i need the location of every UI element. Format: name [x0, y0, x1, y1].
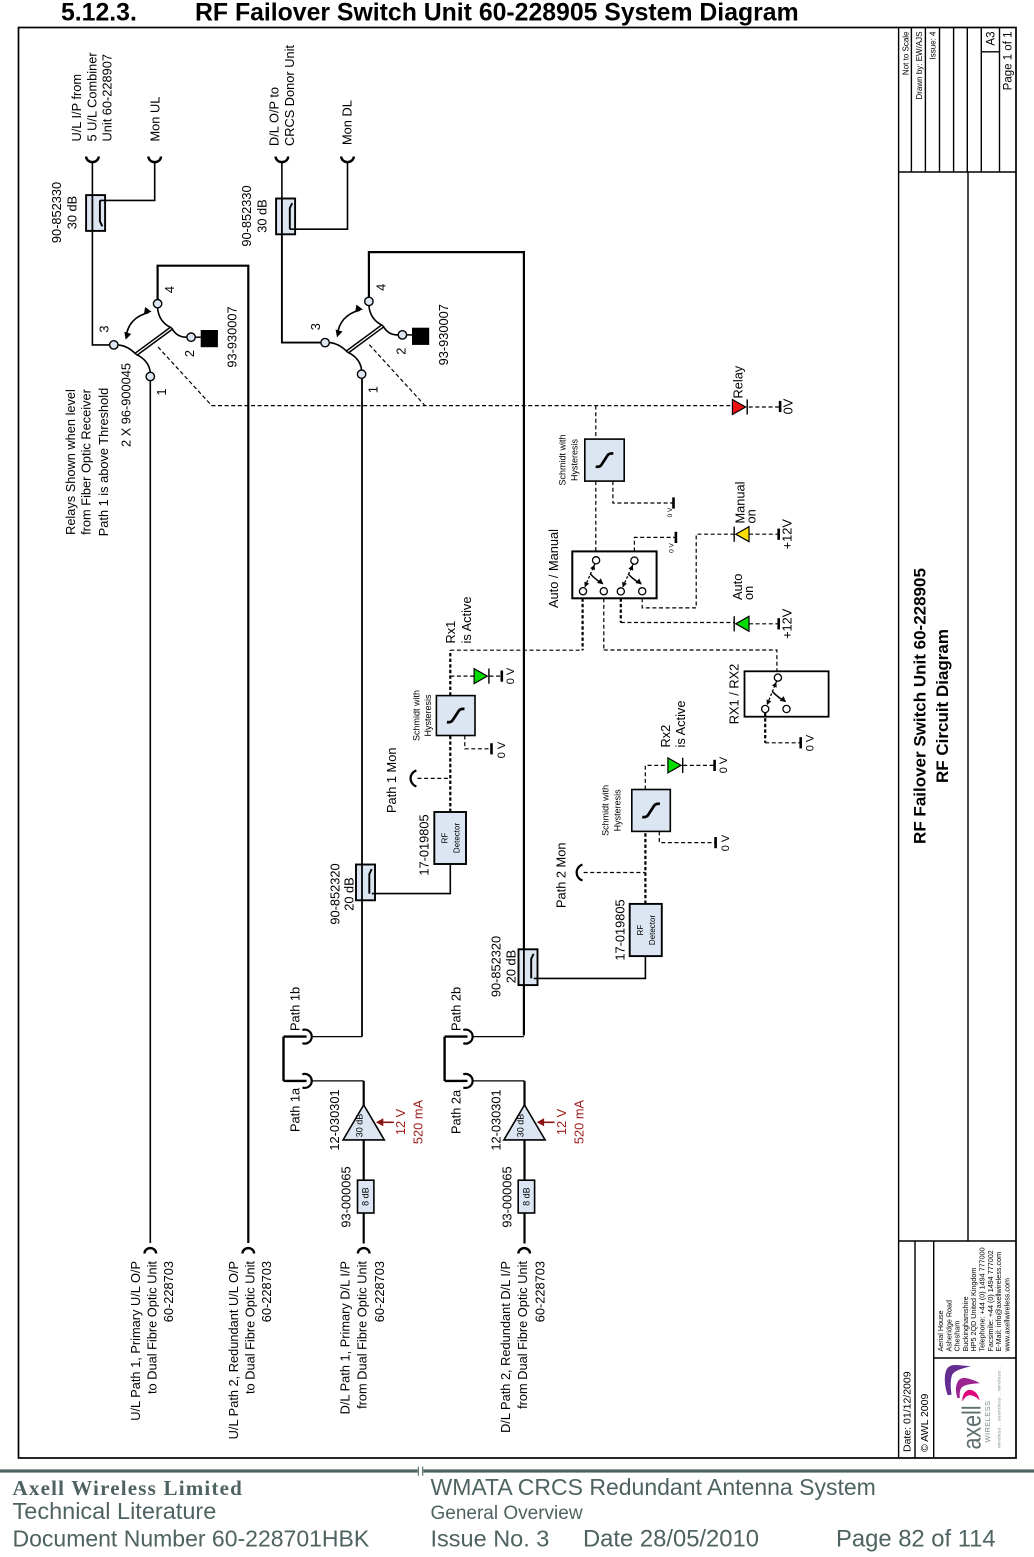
- svg-text:Auto / Manual: Auto / Manual: [546, 529, 561, 608]
- amplifier A1 12-030301: [343, 1105, 384, 1140]
- title block grid: [898, 28, 900, 1459]
- schmidt trigger U2: [585, 439, 624, 481]
- svg-text:on: on: [741, 586, 756, 600]
- svg-text:Drawn by: EW/AJS: Drawn by: EW/AJS: [915, 32, 924, 100]
- RF detector U4 17-019805: [630, 904, 662, 956]
- wire S2 port1 to D/L path1: [361, 379, 363, 1037]
- wire S1 port1 to U/L path1: [149, 381, 151, 1243]
- svg-text:520 mA: 520 mA: [571, 1099, 586, 1144]
- wire to schmidt U2 (dashed): [595, 406, 597, 440]
- svg-text:CRCS Donor Unit: CRCS Donor Unit: [282, 45, 297, 146]
- svg-text:from Dual Fibre Optic Unit: from Dual Fibre Optic Unit: [515, 1261, 530, 1409]
- coupler 90-852320 20 dB (path1): [356, 865, 375, 901]
- svg-text:D/L Path 2, Redundant D/L I/P: D/L Path 2, Redundant D/L I/P: [498, 1261, 513, 1433]
- svg-text:is Active: is Active: [673, 701, 688, 748]
- svg-text:Hysteresis: Hysteresis: [570, 439, 580, 482]
- node D/L path1 input connector: [358, 1248, 370, 1253]
- wire Rx1-is-active net (dashed): [581, 598, 583, 650]
- wire: [683, 764, 714, 766]
- svg-text:Date: 01/12/2009: Date: 01/12/2009: [901, 1371, 913, 1452]
- svg-text:17-019805: 17-019805: [416, 814, 431, 875]
- svg-text:20 dB: 20 dB: [342, 877, 357, 910]
- wire jog: [443, 1037, 445, 1081]
- wire: [363, 1081, 365, 1105]
- svg-text:WIRELESS: WIRELESS: [983, 1401, 992, 1443]
- svg-text:Path 2b: Path 2b: [449, 987, 464, 1031]
- svg-text:Not to Scale: Not to Scale: [901, 31, 910, 75]
- svg-text:90-852330: 90-852330: [239, 185, 254, 246]
- svg-text:90-852330: 90-852330: [49, 182, 64, 243]
- load termination (S1 port 2): [195, 336, 200, 338]
- node U/L I/P connector: [86, 157, 99, 163]
- wire A-right to RX1/RX2 (dashed): [603, 598, 605, 650]
- svg-text:3: 3: [97, 325, 112, 332]
- svg-text:3: 3: [308, 323, 323, 330]
- svg-text:Detector: Detector: [453, 823, 462, 854]
- svg-text:A3: A3: [985, 32, 997, 46]
- ground 0V (U2): [613, 481, 673, 503]
- wire: [523, 1081, 525, 1105]
- wire: [523, 1213, 525, 1244]
- wire: [281, 162, 283, 199]
- svg-text:Relay: Relay: [731, 365, 746, 398]
- svg-text:Issue No. 3: Issue No. 3: [431, 1526, 550, 1552]
- svg-text:Rx1: Rx1: [443, 621, 458, 644]
- wire (dashed): [584, 872, 646, 874]
- wire tap to Mon DL: [290, 162, 348, 229]
- svg-text:to Dual Fibre Optic Unit: to Dual Fibre Optic Unit: [242, 1261, 257, 1394]
- LED auto on (green): [736, 616, 749, 631]
- svg-text:Path 1b: Path 1b: [288, 987, 303, 1031]
- node D/L O/P connector: [276, 157, 289, 163]
- node Path 2 Mon connector: [577, 865, 583, 881]
- svg-text:www.axellwireless.com: www.axellwireless.com: [1002, 1278, 1011, 1353]
- svg-text:D/L Path 1, Primary D/L I/P: D/L Path 1, Primary D/L I/P: [338, 1261, 353, 1414]
- svg-text:12 V: 12 V: [393, 1108, 408, 1135]
- RF detector U3 17-019805: [434, 812, 466, 864]
- ground 0V (SW-B common): [675, 532, 678, 543]
- svg-text:from Fiber Optic Receiver: from Fiber Optic Receiver: [78, 388, 93, 535]
- svg-text:0 V: 0 V: [496, 741, 508, 758]
- schmidt trigger U5: [632, 790, 671, 832]
- schmidt trigger U1: [436, 696, 475, 736]
- supply arrow A2: [542, 1121, 555, 1123]
- svg-text:wireless .. seamless .. wire: wireless .. seamless .. wireless ..: [997, 1366, 1002, 1448]
- svg-text:4: 4: [162, 286, 177, 293]
- load termination (S2 port 2): [407, 334, 412, 336]
- wire: [749, 623, 778, 625]
- svg-text:60-228703: 60-228703: [259, 1261, 274, 1322]
- terminal +12V (manual): [777, 529, 780, 540]
- svg-text:Page 1 of 1: Page 1 of 1: [1003, 32, 1015, 91]
- svg-text:93-000065: 93-000065: [339, 1166, 354, 1227]
- svg-text:4: 4: [374, 284, 389, 291]
- svg-text:Detector: Detector: [648, 915, 657, 946]
- svg-text:© AWL 2009: © AWL 2009: [919, 1394, 931, 1452]
- LED relay: [732, 400, 745, 415]
- svg-text:Document Number 60-228701HBK: Document Number 60-228701HBK: [13, 1526, 370, 1552]
- svg-text:12-030301: 12-030301: [488, 1089, 503, 1150]
- wire (dashed): [418, 777, 451, 779]
- svg-text:RF Failover Switch Unit 60-228: RF Failover Switch Unit 60-228905: [911, 568, 930, 844]
- svg-text:+12V: +12V: [780, 608, 795, 639]
- wire: [363, 1140, 365, 1180]
- svg-text:1: 1: [365, 386, 380, 393]
- wire SW-B common to ground (dashed): [634, 537, 675, 551]
- svg-text:30 dB: 30 dB: [515, 1114, 525, 1138]
- svg-text:0 V: 0 V: [505, 667, 517, 684]
- switch pole B: [622, 564, 633, 588]
- svg-text:on: on: [744, 509, 759, 523]
- svg-text:RF Circuit Diagram: RF Circuit Diagram: [933, 629, 952, 783]
- svg-text:90-852320: 90-852320: [489, 936, 504, 997]
- ground 0V (U5): [659, 831, 715, 842]
- wire jog: [282, 1037, 284, 1081]
- ground 0V (RX): [799, 737, 802, 748]
- svg-text:17-019805: 17-019805: [612, 899, 627, 960]
- svg-text:Issue: 4: Issue: 4: [929, 31, 938, 60]
- wire S2 control (dashed): [369, 345, 425, 406]
- ground 0V (U1): [465, 736, 491, 749]
- svg-text:Date 28/05/2010: Date 28/05/2010: [583, 1526, 759, 1553]
- switch SW auto/manual: [572, 551, 656, 598]
- ground 0V (Rx2 LED): [713, 760, 716, 771]
- svg-text:from Dual Fibre Optic Unit: from Dual Fibre Optic Unit: [354, 1261, 369, 1409]
- svg-text:U/L Path 1, Primary U/L O/P: U/L Path 1, Primary U/L O/P: [128, 1261, 143, 1421]
- svg-text:is Active: is Active: [459, 597, 474, 644]
- svg-text:93-930007: 93-930007: [225, 306, 240, 367]
- wire: [749, 406, 779, 408]
- svg-text:0 V: 0 V: [720, 834, 732, 851]
- wire detector2 to schmidt U5 (dashed): [644, 831, 646, 904]
- wire: [363, 1213, 365, 1244]
- svg-text:5 U/L Combiner: 5 U/L Combiner: [85, 52, 100, 142]
- wire manual-on net (dashed): [642, 534, 734, 608]
- svg-text:RX1 / RX2: RX1 / RX2: [727, 664, 742, 724]
- wire: [91, 162, 93, 195]
- node Path 1 Mon connector: [411, 770, 417, 786]
- svg-text:U/L I/P from: U/L I/P from: [69, 74, 84, 142]
- node U/L path1 output connector: [145, 1248, 157, 1253]
- svg-text:Rx2: Rx2: [658, 725, 673, 748]
- svg-text:to Dual Fibre Optic Unit: to Dual Fibre Optic Unit: [144, 1261, 159, 1394]
- svg-text:2 X 96-900045: 2 X 96-900045: [119, 363, 134, 447]
- svg-text:Relays Shown when level: Relays Shown when level: [63, 389, 78, 535]
- svg-text:30 dB: 30 dB: [254, 199, 269, 232]
- svg-text:20 dB: 20 dB: [504, 950, 519, 983]
- svg-text:Unit 60-228907: Unit 60-228907: [100, 54, 115, 142]
- svg-text:2: 2: [394, 348, 409, 355]
- svg-text:60-228703: 60-228703: [533, 1261, 548, 1322]
- svg-text:30 dB: 30 dB: [355, 1114, 365, 1138]
- wire: [92, 231, 109, 345]
- svg-text:0 V: 0 V: [718, 756, 730, 773]
- svg-text:0V: 0V: [781, 398, 796, 414]
- wire relay control (dashed): [158, 347, 732, 406]
- svg-text:Path 1a: Path 1a: [288, 1087, 303, 1132]
- wire S2 port4 loop to D/L path2: [369, 252, 524, 1035]
- wire S1 port4 loop to U/L path2: [158, 266, 249, 1243]
- svg-text:93-930007: 93-930007: [436, 304, 451, 365]
- wire tap to RF detector 1: [372, 864, 451, 893]
- terminal +12V (auto): [777, 618, 780, 629]
- wire auto-on net (dashed thick): [620, 598, 622, 622]
- svg-text:60-228703: 60-228703: [161, 1261, 176, 1322]
- footer rule: [0, 1469, 418, 1472]
- wire: [282, 235, 321, 343]
- wire tap to RF detector 2: [534, 956, 646, 978]
- svg-text:8 dB: 8 dB: [521, 1187, 531, 1206]
- wire U2 out to auto/manual switch (dashed): [595, 481, 597, 556]
- svg-text:60-228703: 60-228703: [372, 1261, 387, 1322]
- svg-text:RF Failover Switch Unit 60-228: RF Failover Switch Unit 60-228905 System…: [195, 0, 799, 27]
- svg-text:2: 2: [182, 350, 197, 357]
- svg-text:+12V: +12V: [780, 519, 795, 550]
- svg-text:Mon DL: Mon DL: [340, 100, 355, 145]
- supply arrow A1: [381, 1121, 394, 1123]
- svg-text:Page 82 of 114: Page 82 of 114: [836, 1526, 996, 1553]
- svg-text:Hysteresis: Hysteresis: [613, 789, 623, 832]
- svg-text:U/L Path 2, Redundant U/L O/P: U/L Path 2, Redundant U/L O/P: [226, 1261, 241, 1439]
- svg-text:Technical Literature: Technical Literature: [13, 1498, 217, 1524]
- LED Rx1 is active (green): [474, 669, 487, 684]
- ground 0V (relay): [779, 401, 782, 412]
- wire U5 out to LED (dashed): [645, 765, 667, 789]
- node Path 2a connector pair: [445, 1080, 468, 1082]
- coupler 90-852330 30 dB (DL): [276, 199, 295, 235]
- node Mon DL connector: [341, 157, 354, 163]
- svg-text:axell: axell: [957, 1406, 987, 1450]
- wire RX common to ground (dashed): [764, 713, 766, 743]
- svg-text:Schmidt with: Schmidt with: [412, 690, 422, 741]
- wire: [523, 1140, 525, 1180]
- svg-text:Schmidt with: Schmidt with: [601, 785, 611, 836]
- wire U1 out up to Rx1 net (dashed): [449, 650, 451, 695]
- attenuator 93-000065 8 dB (path2): [518, 1180, 534, 1213]
- svg-text:0 V: 0 V: [805, 734, 817, 751]
- LED Rx2 is active (green): [668, 758, 681, 773]
- coupler 90-852320 20 dB (path2): [519, 949, 538, 985]
- svg-text:30 dB: 30 dB: [65, 196, 80, 229]
- svg-text:Mon UL: Mon UL: [148, 97, 163, 142]
- svg-text:RF: RF: [441, 833, 450, 844]
- svg-text:8 dB: 8 dB: [361, 1187, 371, 1206]
- switch pole RX: [767, 681, 777, 706]
- wire: [749, 533, 778, 535]
- svg-text:Path 1 is above Threshold: Path 1 is above Threshold: [96, 388, 111, 536]
- svg-text:Path 1 Mon: Path 1 Mon: [384, 748, 399, 813]
- svg-text:12-030301: 12-030301: [327, 1089, 342, 1150]
- svg-text:D/L O/P to: D/L O/P to: [267, 87, 282, 146]
- svg-text:0 V: 0 V: [667, 507, 674, 517]
- svg-text:General Overview: General Overview: [431, 1503, 583, 1524]
- coupler 90-852330 30 dB (UL): [86, 195, 105, 231]
- svg-text:Hysteresis: Hysteresis: [423, 694, 433, 737]
- LED manual on (yellow): [736, 527, 749, 542]
- node U/L path2 output connector: [243, 1248, 255, 1253]
- node Path 1a connector pair: [284, 1080, 307, 1082]
- node D/L path2 input connector: [518, 1248, 530, 1253]
- node Path 2b connector pair: [445, 1035, 468, 1037]
- ground 0V (Rx1 LED): [500, 671, 503, 682]
- svg-text:90-852320: 90-852320: [328, 863, 343, 924]
- svg-text:5.12.3.: 5.12.3.: [61, 0, 137, 27]
- svg-text:93-000065: 93-000065: [499, 1166, 514, 1227]
- svg-text:WMATA CRCS Redundant Antenna S: WMATA CRCS Redundant Antenna System: [431, 1474, 876, 1500]
- svg-text:Path 2 Mon: Path 2 Mon: [554, 843, 569, 908]
- switch RX1 / RX2: [745, 671, 829, 716]
- wire: [490, 675, 502, 677]
- svg-text:Axell Wireless Limited: Axell Wireless Limited: [13, 1476, 244, 1500]
- svg-text:RF: RF: [636, 925, 645, 936]
- wire tap to Mon UL: [100, 162, 155, 200]
- svg-text:12 V: 12 V: [554, 1108, 569, 1135]
- switch pole A: [584, 564, 595, 588]
- switch S1 93-930007 (UL transfer switch): [137, 329, 173, 355]
- node Path 1b connector pair: [284, 1035, 307, 1037]
- svg-text:Schmidt with: Schmidt with: [558, 434, 568, 485]
- svg-text:0 V: 0 V: [669, 542, 676, 552]
- wire detector1 to schmidt U1 (dashed): [449, 736, 451, 813]
- attenuator 93-000065 8 dB (path1): [358, 1180, 374, 1213]
- switch S2 93-930007 (DL transfer switch): [348, 327, 384, 353]
- svg-text:1: 1: [154, 388, 169, 395]
- svg-text:520 mA: 520 mA: [411, 1099, 426, 1144]
- amplifier A2 12-030301: [504, 1105, 545, 1140]
- wire branch to LED (dashed): [450, 675, 473, 677]
- svg-text:Path 2a: Path 2a: [449, 1089, 464, 1134]
- node Mon UL connector: [148, 157, 161, 163]
